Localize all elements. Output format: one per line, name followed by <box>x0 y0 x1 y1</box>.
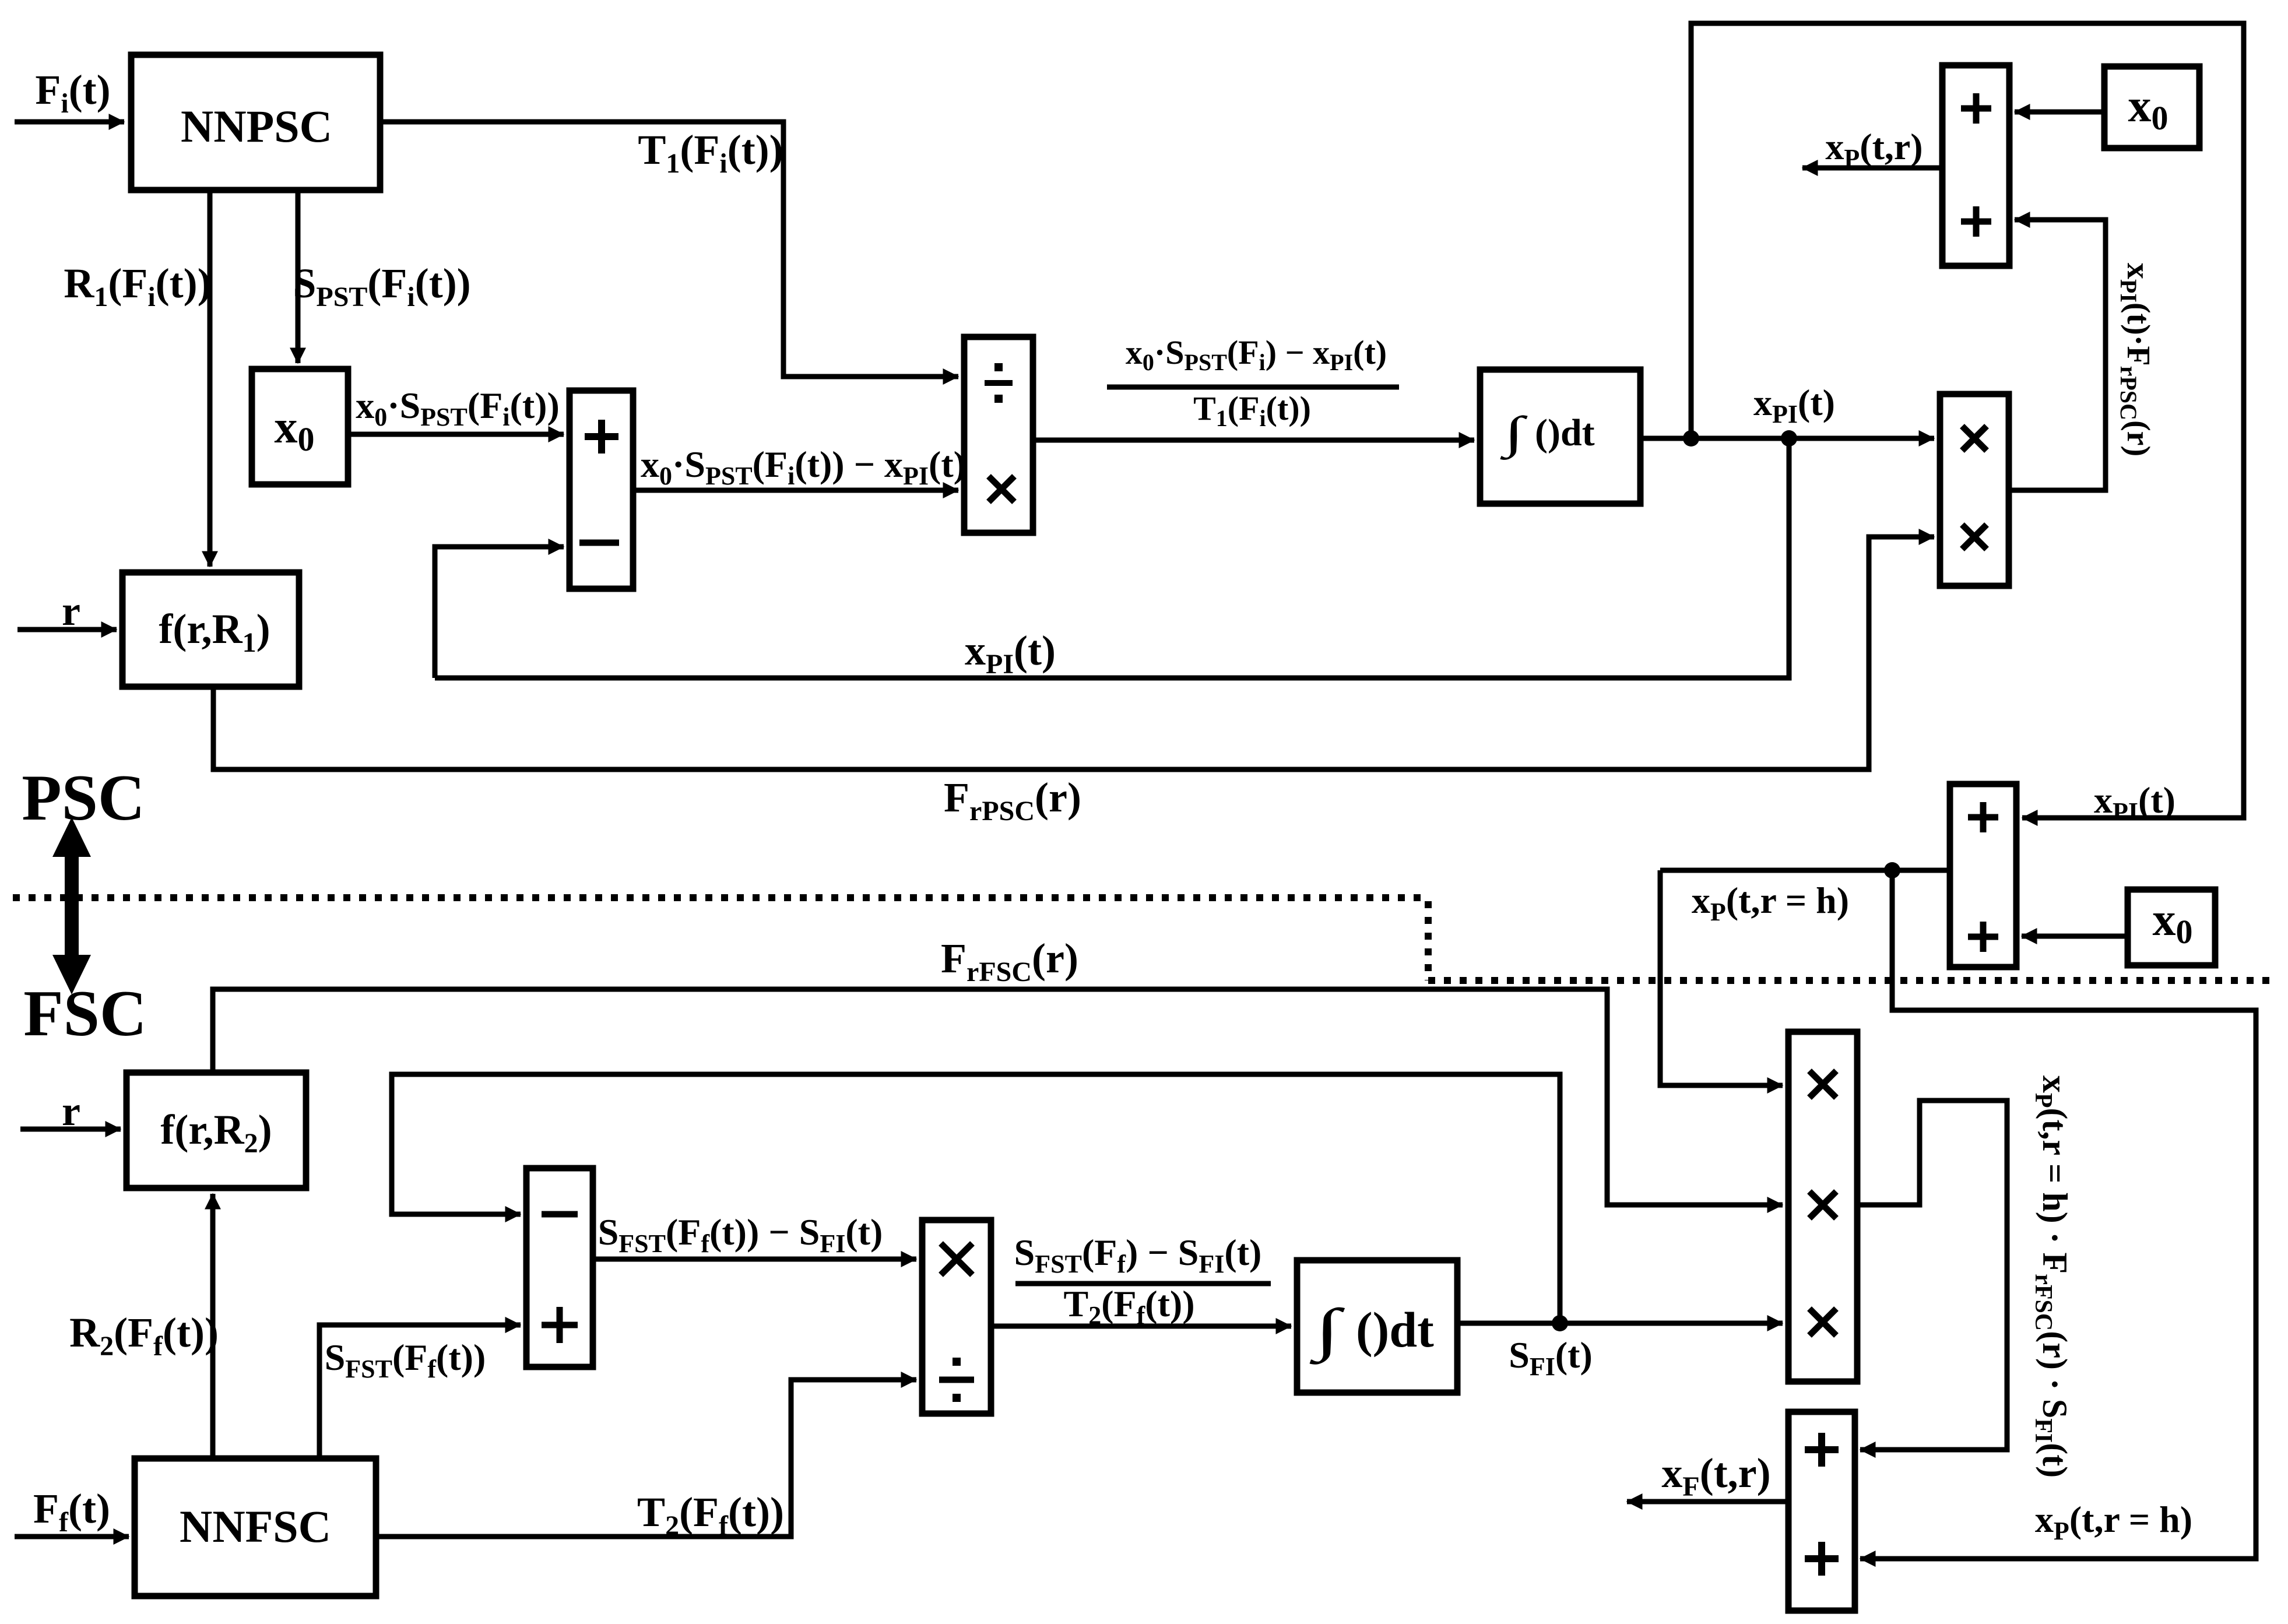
wire xF(t,r) output arrow <box>1627 1499 1788 1505</box>
dotted divider step <box>1425 901 1432 980</box>
label xP(t,r=h) bottom right <box>2035 1499 2192 1545</box>
label xP(t,r=h) under S3 out <box>1692 880 1849 926</box>
wire R1 from NNPSC to f(r,R1) <box>208 190 213 567</box>
junction integrator out <box>1683 430 1699 447</box>
block NNFSC <box>135 1458 376 1596</box>
wire r input PSC <box>17 627 117 632</box>
svg-text:()dt: ()dt <box>1535 412 1595 454</box>
label fraction PSC denominator <box>1193 389 1311 431</box>
wire Ff(t) input <box>15 1534 129 1539</box>
svg-text:r: r <box>62 588 80 634</box>
wire M3 output to integrator FSC <box>991 1324 1291 1329</box>
label FrPSC(r) <box>944 774 1081 827</box>
label R1(Fi(t)) <box>64 260 211 312</box>
block x0 right middle <box>2128 890 2215 965</box>
svg-text:xF(t,r): xF(t,r) <box>1661 1450 1770 1502</box>
svg-text:PSC: PSC <box>22 762 145 834</box>
wire xPI feedback into S1 minus <box>435 547 564 678</box>
wire S4 output to M3 times <box>593 1257 916 1262</box>
svg-text:T1(Fi(t)): T1(Fi(t)) <box>1193 389 1311 431</box>
svg-text:T1(Fi(t)): T1(Fi(t)) <box>638 126 783 179</box>
summer S2 top right <box>1942 65 2009 266</box>
wire xP(t,r=h) into M4 top times <box>1660 870 1783 1085</box>
wire M1 output to integrator PSC <box>1033 438 1474 443</box>
label xPI(t) at junction <box>1753 382 1835 428</box>
wire T1 from NNPSC to divider <box>380 122 958 377</box>
svg-text:NNPSC: NNPSC <box>181 101 332 152</box>
summer S4 minus-plus FSC <box>526 1168 593 1367</box>
label PSC <box>22 762 145 834</box>
label xPI(t) on long feedback <box>965 627 1056 680</box>
wire integrator output to M2 times <box>1640 436 1934 441</box>
wire SFI to M4 bottom times <box>1457 1321 1783 1326</box>
block x0 top right <box>2104 66 2199 148</box>
integrator FSC <box>1297 1260 1457 1393</box>
wire Fi(t) input <box>15 119 124 125</box>
junction xPI branch <box>1781 430 1797 447</box>
wire M2 output up to S2 plus bottom <box>2009 220 2106 490</box>
block f(r,R2) <box>126 1073 306 1188</box>
label x0*SPST(Fi(t))-xPI(t) <box>641 444 966 490</box>
svg-text:T2(Ff(t)): T2(Ff(t)) <box>1064 1283 1195 1330</box>
block x0 gain PSC <box>252 369 348 484</box>
dotted PSC/FSC divider left <box>13 894 1428 901</box>
label FrFSC(r) <box>941 935 1078 987</box>
wire xPI up over to S3 plus <box>1691 23 2244 818</box>
wire M4 product output to S5 plus top <box>1857 1101 2007 1450</box>
junction SFI <box>1552 1315 1568 1331</box>
fraction FSC bar <box>1015 1281 1271 1286</box>
block NNPSC <box>131 55 380 190</box>
svg-text:∫: ∫ <box>1310 1297 1345 1365</box>
svg-text:Fi(t): Fi(t) <box>35 66 110 119</box>
svg-text:Ff(t): Ff(t) <box>33 1485 110 1538</box>
label product rotated FSC <box>2030 1075 2074 1478</box>
wire S3 output left <box>1660 868 1950 873</box>
label xPI(t)FrPSC(r) rotated <box>2115 263 2156 456</box>
summer S1 plus-minus PSC <box>570 391 633 589</box>
wire xPI long feedback down-left <box>435 438 1789 678</box>
wire T2 from NNFSC to M3 divide <box>376 1380 916 1537</box>
svg-text:R2(Ff(t)): R2(Ff(t)) <box>69 1309 219 1362</box>
svg-text:NNFSC: NNFSC <box>180 1501 331 1552</box>
label r FSC <box>62 1088 80 1134</box>
wire xP(t,r=h) down to S5 plus bottom <box>1860 870 2256 1559</box>
label SFST(Ff(t)) <box>325 1337 486 1383</box>
multiplier-divider M3 FSC <box>922 1220 991 1414</box>
wire R2 from NNFSC up to f(r,R2) <box>210 1194 216 1458</box>
junction xP(t,r=h) <box>1884 862 1900 878</box>
svg-text:R1(Fi(t)): R1(Fi(t)) <box>64 260 211 312</box>
wire x0 to S2 plus top <box>2015 110 2104 115</box>
label xP(t,r) <box>1825 126 1923 173</box>
svg-text:xP(t,r): xP(t,r) <box>1825 126 1923 173</box>
wire SFI feedback into S4 minus <box>392 1074 1560 1323</box>
label R2(Ff(t)) <box>69 1309 219 1362</box>
svg-text:FSC: FSC <box>23 978 147 1050</box>
label T1(Fi(t)) <box>638 126 783 179</box>
fraction PSC bar <box>1107 385 1399 390</box>
svg-text:T2(Ff(t)): T2(Ff(t)) <box>637 1489 784 1541</box>
label SPST(Fi(t)) <box>293 260 470 312</box>
label xF(t,r) <box>1661 1450 1770 1502</box>
label fraction PSC numerator <box>1126 333 1387 375</box>
summer S5 bottom right <box>1788 1412 1855 1611</box>
label SFI(t) <box>1509 1334 1593 1381</box>
wire xP(t,r) output arrow <box>1802 166 1942 171</box>
label Fi(t) <box>35 66 110 119</box>
label T2(Ff(t)) <box>637 1489 784 1541</box>
label fraction FSC numerator <box>1014 1232 1262 1278</box>
label FSC <box>23 978 147 1050</box>
dotted divider right <box>1428 977 2278 984</box>
wire x0 to S3 plus bottom <box>2022 934 2128 939</box>
wire FrFSC from f(r,R2) to M4 middle times <box>213 989 1783 1205</box>
svg-text:∫: ∫ <box>1500 407 1528 460</box>
wire r input FSC <box>20 1127 121 1132</box>
integrator PSC <box>1480 370 1640 504</box>
multiplier M4 triple FSC <box>1788 1032 1857 1382</box>
wire S1 output to M1 times <box>633 488 958 493</box>
divider-multiplier M1 PSC <box>964 337 1033 533</box>
label Ff(t) <box>33 1485 110 1538</box>
multiplier M2 right <box>1940 394 2009 586</box>
label xPI(t) at S3 <box>2094 779 2175 826</box>
double arrow PSC-FSC <box>52 817 91 994</box>
block f(r,R1) <box>122 572 299 687</box>
label fraction FSC denominator <box>1064 1283 1195 1330</box>
svg-text:()dt: ()dt <box>1356 1302 1434 1358</box>
wire SFST from NNFSC to S4 plus <box>319 1325 521 1458</box>
wire FrPSC from f(r,R1) to M2 lower times <box>213 537 1934 769</box>
label x0*SPST(Fi(t)) <box>356 385 560 431</box>
wire SPST from NNPSC to x0 <box>296 190 301 363</box>
label SFST(Ff(t))-SFI(t) <box>598 1211 883 1258</box>
label r PSC <box>62 588 80 634</box>
summer S3 right middle <box>1950 784 2016 967</box>
wire x0*SPST to summer S1 plus <box>348 432 564 437</box>
svg-text:r: r <box>62 1088 80 1134</box>
